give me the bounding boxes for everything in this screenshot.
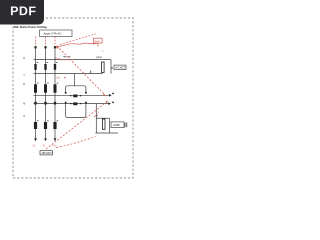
svg-text:3Ph MOT: 3Ph MOT [42,152,53,155]
red callout: Fuse label box [93,38,102,43]
red diagonal D2 [46,102,107,149]
box: Apply 3 Ph AC [40,30,73,37]
fuse F1 F2 F3 [34,64,56,70]
svg-text:Fuse: Fuse [95,41,101,43]
left margin row labels [23,57,25,118]
contactor main contacts [34,84,57,92]
terminal squares row 2 [34,102,56,105]
wire: horizontal Y2 [34,73,103,75]
red tick under callout box [97,43,99,47]
red leader curve [58,43,98,47]
wire: upper holding loop [66,86,86,93]
PDF badge [0,0,44,25]
svg-text:PDF: PDF [10,4,36,18]
red diagonal D1 [57,46,105,95]
svg-text:AC MOT: AC MOT [115,67,125,70]
page background [0,0,149,198]
tiny designator ticks [63,56,66,57]
overload relay heaters [34,122,57,129]
red shallow dashed line to border [60,34,96,45]
svg-text:DOL Starter Power Ckt Diag: DOL Starter Power Ckt Diag [14,26,47,29]
red dashed supply stubs [36,37,56,46]
node dots right of rails [112,93,114,95]
wire: control tap down [74,74,76,86]
svg-text:Apply 3 Ph AC: Apply 3 Ph AC [44,32,62,36]
wire: horizontal Y1 [34,59,112,61]
red leader to lamp L2 [57,137,96,148]
svg-text:LAMP: LAMP [113,124,120,127]
lamp L2 (bottom right) [95,104,97,133]
wire: rail B [34,103,109,105]
red dash near lamp L2 corner [94,112,99,117]
page dashed border [13,18,133,178]
svg-text:O: O [23,115,25,118]
red motor terminal labels [33,145,57,147]
contact on rail A [70,95,81,98]
wire: rail A [34,94,110,96]
svg-text:M: M [23,102,25,105]
node: line arrows at motor end [34,138,56,141]
svg-text:Coil: Coil [56,77,61,80]
svg-text:R: R [23,57,25,60]
wire: three phase columns [36,48,56,138]
motor label box [40,151,53,155]
wire: lower holding loop [66,104,86,118]
svg-text:Lamp: Lamp [96,56,103,59]
terminal squares row 1 [34,46,56,48]
contact on rail B [70,102,81,105]
